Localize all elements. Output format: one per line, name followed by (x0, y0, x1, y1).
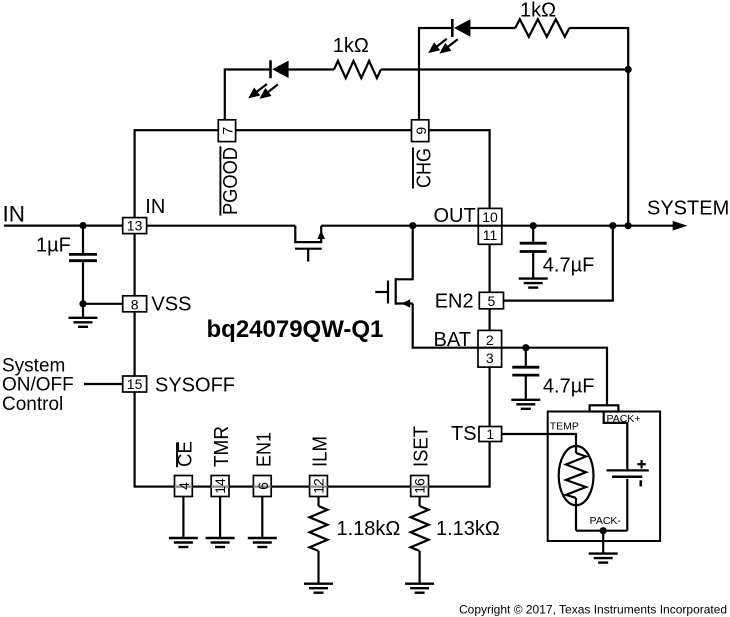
node junction dot BAT/C3 (522, 344, 529, 351)
resistor R2 1k (515, 19, 569, 37)
svg-text:ILM: ILM (310, 436, 332, 467)
wire IN input lead (4, 225, 123, 227)
svg-text:ON/OFF: ON/OFF (2, 375, 74, 396)
svg-text:1.13kΩ: 1.13kΩ (436, 518, 500, 540)
wire OUT line to SYSTEM (478, 225, 684, 227)
wire PGOOD riser (225, 70, 269, 120)
wire LED2 to R2 (470, 27, 515, 29)
wire PACK+ to battery (604, 412, 628, 470)
svg-text:4: 4 (176, 482, 192, 490)
pin 4 CE overline (176, 443, 178, 468)
svg-text:CHG: CHG (414, 148, 436, 188)
svg-text:TEMP: TEMP (550, 421, 579, 433)
pin 5 box (479, 292, 503, 309)
pin 1 box (479, 427, 502, 442)
wire EN1 ground stem (261, 497, 263, 537)
svg-text:2: 2 (486, 332, 494, 348)
svg-text:SYSOFF: SYSOFF (155, 375, 235, 397)
diode D2 CHG LED (452, 19, 470, 37)
svg-text:System: System (2, 355, 65, 376)
pin 7 box (218, 120, 235, 142)
wire bus through pin 6 box (253, 486, 271, 488)
ground (69, 318, 98, 327)
diode D1 PGOOD LED (271, 60, 289, 78)
node junction dot C1/VSS/ground (79, 300, 86, 307)
svg-text:Copyright © 2017, Texas Instru: Copyright © 2017, Texas Instruments Inco… (459, 603, 727, 617)
battery plus sign (637, 460, 645, 468)
node junction dot OUT/EN2 riser (609, 222, 616, 229)
svg-text:IN: IN (145, 196, 165, 218)
svg-text:10: 10 (482, 209, 498, 225)
wire CE ground stem (182, 497, 184, 537)
svg-text:3: 3 (486, 350, 494, 366)
wire BAT line (478, 348, 607, 406)
wire TMR ground stem (219, 497, 221, 537)
pin 12 box (310, 476, 328, 497)
node junction dot OUT/LED bus (625, 222, 632, 229)
svg-text:ISET: ISET (411, 426, 433, 467)
battery BT1 (607, 470, 649, 530)
pin 14 box (211, 476, 229, 497)
wire bus through pin 16 box (411, 486, 429, 488)
wire PACK- ground stem (602, 531, 604, 553)
pin 6 box (253, 476, 271, 497)
node junction dot IN/C1 (79, 222, 86, 229)
node junction dot FET drain/OUT (409, 222, 416, 229)
pin 16 box (411, 476, 429, 497)
svg-text:bq24079QW-Q1: bq24079QW-Q1 (207, 316, 384, 343)
svg-text:TMR: TMR (211, 426, 233, 467)
svg-text:VSS: VSS (151, 294, 191, 316)
pin 8 box (123, 296, 147, 312)
ground (511, 400, 540, 409)
svg-text:1.18kΩ: 1.18kΩ (337, 518, 401, 540)
wire VSS to pin 8 (83, 303, 123, 305)
capacitor C2 4.7uF (520, 226, 547, 278)
pin 15 box (123, 376, 147, 392)
svg-text:15: 15 (127, 376, 143, 392)
svg-text:5: 5 (488, 293, 496, 309)
wire EN2 to riser (504, 226, 613, 301)
svg-text:1: 1 (486, 426, 494, 442)
svg-text:1µF: 1µF (36, 235, 71, 257)
transistor Q2 battery FET (375, 226, 478, 348)
wire CHG riser (419, 28, 451, 120)
svg-text:PGOOD: PGOOD (220, 147, 242, 215)
svg-text:OUT: OUT (434, 205, 476, 227)
node junction dot OUT/C2 (530, 222, 537, 229)
battery minus sign (639, 480, 642, 486)
transistor Q1 pass FET (295, 226, 322, 262)
node PACK+ terminal tab (590, 405, 619, 411)
transistor Q1 body arrow (317, 230, 325, 239)
ground (248, 538, 277, 547)
pin 4 box (175, 476, 193, 497)
pin 7 PGOOD overline (219, 146, 221, 215)
transistor Q2 body arrow (402, 299, 411, 307)
wire SYSOFF lead (84, 383, 123, 385)
node SYSTEM arrowhead (673, 221, 688, 231)
pin 9 CHG overline (412, 148, 414, 189)
wire PACK- line (576, 530, 627, 532)
wire FET1 to OUT (321, 225, 478, 227)
svg-text:EN2: EN2 (435, 291, 474, 313)
diode D1 emission arrows (250, 84, 278, 97)
wire bus through pin 14 box (211, 486, 229, 488)
pin 10 11 box (478, 208, 502, 244)
pin 9 box (412, 120, 429, 142)
diode D2 emission arrows (430, 39, 458, 52)
svg-text:Control: Control (2, 394, 63, 415)
wire R2 to right bus corner (569, 28, 628, 226)
wire bus through pin 12 box (310, 486, 328, 488)
resistor R4 1.13k (411, 497, 429, 583)
svg-text:11: 11 (483, 227, 498, 243)
svg-text:13: 13 (127, 218, 143, 234)
ground (304, 584, 333, 593)
pin 2 3 box (478, 330, 502, 367)
ground (206, 538, 235, 547)
wire internal IN to FET1 (147, 225, 296, 227)
ground (589, 554, 618, 563)
svg-text:SYSTEM: SYSTEM (647, 198, 729, 220)
pin 13 box (123, 218, 147, 234)
node junction dot PACK- (600, 527, 607, 534)
svg-text:TS: TS (451, 423, 477, 445)
node junction dot LED bus (625, 66, 632, 73)
battery pack box (548, 412, 660, 542)
wire BAT through pin box (478, 347, 502, 349)
svg-text:16: 16 (412, 478, 428, 494)
svg-text:7: 7 (220, 127, 236, 135)
resistor R3 1.18k (310, 497, 328, 583)
wire OUT through pin box (478, 225, 502, 227)
ground (169, 538, 198, 547)
svg-text:9: 9 (413, 127, 429, 135)
svg-text:4.7µF: 4.7µF (543, 375, 595, 397)
op-amp U1 IC outline bq24079QW-Q1 (135, 130, 490, 486)
ground (405, 584, 434, 593)
ground (519, 279, 548, 288)
wire LED1 to R1 (289, 68, 334, 70)
svg-text:8: 8 (131, 297, 139, 313)
wire TS lead to thermistor (502, 434, 576, 453)
capacitor C3 4.7uF (512, 348, 539, 399)
svg-text:6: 6 (255, 482, 271, 490)
resistor R1 1k (334, 61, 381, 78)
svg-text:12: 12 (311, 478, 327, 494)
resistor RT thermistor (559, 446, 594, 531)
wire bus through pin 4 box (175, 486, 193, 488)
wire ground stem (82, 304, 84, 317)
capacitor C1 1uF (69, 226, 97, 304)
svg-text:BAT: BAT (434, 329, 471, 351)
svg-text:14: 14 (212, 478, 228, 494)
wire R1 to right bus (381, 68, 628, 70)
svg-text:PACK-: PACK- (590, 515, 622, 527)
svg-text:EN1: EN1 (253, 432, 275, 467)
svg-text:IN: IN (3, 202, 26, 227)
svg-text:4.7µF: 4.7µF (543, 255, 595, 277)
svg-text:1kΩ: 1kΩ (333, 35, 369, 57)
